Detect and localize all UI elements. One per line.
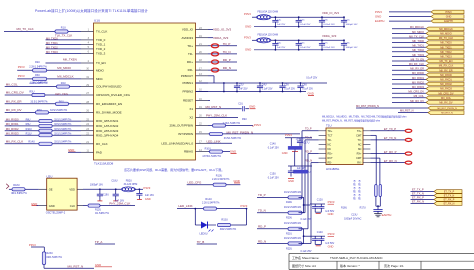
transformer T1U body — [326, 128, 363, 165]
resistor R10U 4.87K on RBIAS — [208, 151, 230, 153]
svg-text:0.1uF 25V: 0.1uF 25V — [284, 89, 295, 91]
net MII_RXD2 wire — [5, 130, 81, 132]
net MII_RXD1 wire — [5, 125, 81, 127]
svg-text:0.1uF 25V: 0.1uF 25V — [268, 176, 279, 179]
port MII_RXD1 — [426, 78, 464, 82]
svg-text:RD_N: RD_N — [305, 158, 312, 162]
svg-text:0.1uF 25V: 0.1uF 25V — [268, 146, 279, 149]
U1 pin PAD (pin 11) left stub — [81, 151, 94, 153]
svg-text:MII_TXEN: MII_TXEN — [63, 58, 77, 62]
svg-text:RX-: RX- — [357, 162, 361, 165]
svg-text:2.2K/1.54PF/7%: 2.2K/1.54PF/7% — [29, 66, 47, 69]
net MII_TXD2 wire — [46, 48, 82, 50]
U1 pin RD+ (pin 18) right stub — [196, 61, 209, 63]
svg-text:C14U: C14U — [317, 231, 323, 234]
svg-text:TX-: TX- — [357, 139, 361, 142]
svg-text:RBIAS: RBIAS — [184, 150, 193, 154]
svg-text:VDD_IO_3V3: VDD_IO_3V3 — [322, 11, 339, 15]
svg-text:MII_RXD0: MII_RXD0 — [6, 117, 19, 121]
resistor R9U 33.5 on MII_RXD1 — [39, 124, 52, 127]
svg-text:C7C: C7C — [324, 43, 329, 45]
port MII_TXD2 — [426, 50, 464, 54]
svg-text:33.5/1.54PF/7%: 33.5/1.54PF/7% — [54, 140, 72, 143]
wire to port EARTH — [389, 20, 431, 22]
capacitor C6C 0.1uF 25V — [298, 39, 300, 41]
T1U left pin RCT — [319, 157, 326, 159]
U1 pin TXD_3 (pin 6) left stub — [81, 52, 94, 54]
svg-text:MII_RX_CLK: MII_RX_CLK — [6, 139, 24, 143]
center tap wire lower — [370, 157, 380, 159]
svg-text:TD_N: TD_N — [223, 50, 231, 54]
svg-text:C12U: C12U — [317, 199, 323, 202]
svg-text:RXD_2/PHYAD3: RXD_2/PHYAD3 — [96, 129, 119, 133]
capacitor C4U 0.1uF 25V between PFB rails — [259, 82, 261, 84]
oscillator U2U body — [47, 178, 77, 210]
no-ERC marker on RD_P — [211, 60, 218, 64]
svg-text:P3V3: P3V3 — [375, 10, 382, 14]
wire MII_RST_N from X1 row — [208, 108, 242, 110]
net label VDD_IO_3V3 — [208, 29, 213, 31]
resistor R12U on CLK — [88, 204, 100, 207]
svg-text:EARTH: EARTH — [444, 20, 453, 23]
capacitor C7C 0.01uF 16V — [321, 39, 323, 41]
svg-text:1nF 25V: 1nF 25V — [239, 89, 248, 91]
U1 pin RD- (pin 17) right stub — [196, 69, 209, 71]
no-ERC marker on ET_TX_P — [405, 129, 412, 132]
T1U left pin NC — [319, 143, 326, 145]
svg-text:GND: GND — [95, 263, 101, 267]
svg-text:TD_P: TD_P — [258, 193, 266, 197]
wire RD_P termination — [257, 228, 288, 230]
port MII_TX_EN — [426, 59, 464, 63]
capacitor C6U 0.1uF 25V between PFB rails — [300, 82, 302, 84]
svg-text:MII_TX_CLK: MII_TX_CLK — [17, 27, 34, 31]
svg-text:49.9/1.54PF/1%: 49.9/1.54PF/1% — [284, 237, 302, 240]
svg-text:RX+: RX+ — [357, 153, 362, 156]
svg-text:X1: X1 — [189, 107, 193, 111]
svg-text:LED_LINK: LED_LINK — [178, 204, 192, 208]
wire TD_N vertical to T1U — [299, 212, 306, 214]
svg-text:TD-: TD- — [188, 52, 193, 56]
svg-text:MII_COL: MII_COL — [441, 97, 452, 100]
svg-text:MII_CRS_DV: MII_CRS_DV — [6, 91, 24, 95]
svg-text:EARTH: EARTH — [375, 19, 384, 23]
svg-text:RD-: RD- — [328, 162, 333, 165]
svg-text:LED_CFG: LED_CFG — [55, 92, 68, 96]
LED branch vertical left — [194, 209, 196, 225]
svg-text:MII_RX_CLK: MII_RX_CLK — [439, 65, 454, 68]
svg-text:R17U: R17U — [360, 206, 366, 209]
no-ERC marker on ET_RX_N — [405, 161, 412, 164]
svg-text:VDD_IO_3V3: VDD_IO_3V3 — [213, 28, 232, 32]
svg-text:MII_RX_ER: MII_RX_ER — [6, 99, 23, 103]
svg-text:页次 Page: 1/1: 页次 Page: 1/1 — [384, 263, 404, 268]
title block frame — [289, 253, 474, 255]
svg-text:P3V3: P3V3 — [445, 11, 452, 14]
svg-text:GND: GND — [249, 105, 255, 109]
net MII_RX_DV wire — [5, 111, 81, 113]
svg-text:0R/1.54PF/7%: 0R/1.54PF/7% — [46, 256, 62, 259]
wire to port MII_RXD0 — [392, 74, 426, 76]
U1 pin TX_CLK (pin 1) left stub — [81, 31, 94, 33]
wire to port MII_RXD1 — [392, 78, 426, 80]
svg-text:C17U: C17U — [303, 142, 309, 145]
wire to port MII_COL — [392, 97, 426, 99]
svg-text:NC: NC — [328, 148, 332, 151]
wire TD_P vertical to T1U — [299, 196, 303, 198]
svg-text:C8C: C8C — [346, 43, 351, 45]
T1U left pin RD- — [319, 162, 326, 164]
wire to port MII_TXD0 — [392, 42, 426, 44]
svg-text:TX_CLK: TX_CLK — [96, 30, 107, 34]
svg-text:RXD_3/PHYAD4: RXD_3/PHYAD4 — [96, 133, 119, 137]
filter blue box lower — [294, 170, 308, 173]
svg-text:MII_RXD3: MII_RXD3 — [440, 88, 452, 91]
svg-text:P3V3: P3V3 — [285, 133, 292, 137]
svg-text:EARTH: EARTH — [382, 213, 392, 217]
svg-text:1000pF 2KV/AC: 1000pF 2KV/AC — [344, 218, 362, 221]
svg-text:VDD_IO: VDD_IO — [182, 28, 194, 32]
svg-text:MII_RXD1: MII_RXD1 — [440, 79, 452, 82]
port MII_MDCLK — [426, 27, 464, 31]
svg-text:0/1.54PF/7%: 0/1.54PF/7% — [95, 212, 110, 215]
T1U left pin TD- — [319, 139, 326, 141]
svg-text:0.01uF 16V: 0.01uF 16V — [324, 24, 336, 26]
svg-text:MII_RXD2: MII_RXD2 — [440, 83, 452, 86]
wire LED_LINK row — [177, 208, 247, 210]
wire join RD pair — [303, 229, 305, 244]
svg-text:TXD_3: TXD_3 — [96, 52, 106, 56]
svg-text:TX_EN: TX_EN — [96, 61, 106, 65]
capacitor C5U 0.1uF 25V between PFB rails — [282, 82, 284, 84]
svg-text:GND: GND — [446, 16, 452, 19]
svg-text:GND: GND — [49, 204, 55, 208]
svg-text:1000pF 16V: 1000pF 16V — [90, 184, 103, 187]
svg-text:33.5/1.54PF/7%: 33.5/1.54PF/7% — [54, 123, 72, 126]
U1 pin TD- (pin 20) right stub — [196, 53, 209, 55]
net MII_RX_ER wire — [5, 103, 81, 105]
svg-text:CLK: CLK — [70, 204, 75, 208]
wire to port MII_RST_PWDN_N — [356, 107, 428, 109]
port MII_RX_CLK — [426, 64, 464, 68]
net PHY_25M_CLK at X2 — [208, 116, 238, 118]
net PHY_25M_CLK from CLK out — [83, 205, 88, 207]
svg-text:R19U: R19U — [286, 201, 292, 204]
svg-text:VDD: VDD — [69, 188, 75, 192]
bare stub RESET row — [208, 100, 210, 102]
wire ET_TX_N to port — [411, 195, 435, 197]
wire to port GND — [389, 16, 431, 18]
U1 pin 25M_OUT/PFBIN (pin 22) right stub — [196, 125, 209, 127]
svg-text:33.5/1.54PF/7%: 33.5/1.54PF/7% — [50, 109, 68, 112]
svg-text:RD+: RD+ — [187, 60, 193, 64]
net MII_MDIO wire — [17, 69, 81, 71]
svg-text:CRS/CRS_DV/LED_CFG: CRS/CRS_DV/LED_CFG — [96, 93, 131, 97]
wire ET_RX_N to port — [411, 203, 435, 205]
svg-text:49.9/1.54PF/1%: 49.9/1.54PF/1% — [284, 206, 302, 209]
svg-text:C4U: C4U — [262, 84, 267, 86]
svg-text:0.1uF 25V: 0.1uF 25V — [302, 89, 313, 91]
svg-text:MII_COL: MII_COL — [6, 82, 18, 86]
svg-text:P3V3: P3V3 — [328, 200, 335, 204]
net MII_RXD3 wire — [5, 134, 81, 136]
U1 pin INT/PWDN (pin 15) right stub — [196, 133, 209, 135]
svg-text:P3V3: P3V3 — [18, 65, 25, 69]
no-ERC marker on ET_RX_P — [405, 152, 412, 155]
resistor R19U 49.9 — [288, 196, 302, 199]
svg-text:C2C: C2C — [300, 20, 305, 22]
T1U right pin TX- — [363, 139, 370, 141]
capacitor C18U on osc VDD — [115, 188, 117, 190]
net MII_CRS_DV wire — [5, 94, 81, 96]
no-ERC marker on TD_P — [211, 44, 218, 48]
U1 pin PFBIN2 (pin 10) right stub — [196, 91, 209, 93]
svg-text:AVDD33: AVDD33 — [182, 36, 194, 40]
rail wire to VDD_IO_3V3 — [271, 16, 344, 18]
svg-text:1000pF 16V: 1000pF 16V — [346, 24, 358, 26]
svg-text:R1U: R1U — [61, 27, 66, 30]
U1 pin RESET (pin 16) right stub — [196, 100, 209, 102]
svg-text:ET_RX_N: ET_RX_N — [384, 159, 397, 163]
svg-text:1uF 16V: 1uF 16V — [145, 194, 154, 197]
wire ET_RX_P from T1U — [370, 153, 405, 155]
svg-text:PAD: PAD — [96, 150, 103, 154]
svg-text:MII_RST_N: MII_RST_N — [441, 113, 453, 115]
wire PAD to GND — [68, 151, 81, 153]
svg-text:GND: GND — [234, 179, 240, 183]
port P3V3 — [431, 10, 464, 14]
svg-text:2.2K/1.54PF/7%: 2.2K/1.54PF/7% — [202, 202, 220, 205]
T1U left pin NC — [319, 148, 326, 150]
svg-text:GND: GND — [328, 244, 334, 248]
svg-text:R21U: R21U — [286, 233, 292, 236]
svg-text:TSCP-SEB-A_PHY-TLK110L-MII-8AD: TSCP-SEB-A_PHY-TLK110L-MII-8ADC — [330, 256, 384, 260]
U1 pin TXD_0 (pin 3) left stub — [81, 39, 94, 41]
svg-text:MII_RXD0: MII_RXD0 — [440, 74, 452, 77]
svg-text:ET_TX_N: ET_TX_N — [384, 136, 396, 140]
net MII_RX_CLK wire — [5, 143, 81, 145]
svg-text:RD_P: RD_P — [223, 58, 231, 62]
svg-text:TLK110/LED8: TLK110/LED8 — [94, 162, 113, 166]
svg-text:C18U: C18U — [111, 180, 117, 183]
resistor R10U 33.5 on MII_RXD2 — [39, 129, 52, 132]
svg-text:P3V3: P3V3 — [328, 232, 335, 236]
svg-text:P3V3: P3V3 — [254, 123, 261, 127]
U1 pin RBIAS (pin 14) right stub — [196, 151, 209, 153]
svg-text:MII_MDCLK、MII_MDIO、MII_TXEN、MI: MII_MDCLK、MII_MDIO、MII_TXEN、MII_TXD0-MII… — [322, 114, 407, 118]
svg-text:2.2K/1.54PF/7%: 2.2K/1.54PF/7% — [29, 82, 47, 85]
svg-text:ET_TX_N: ET_TX_N — [412, 192, 424, 196]
capacitor C8C 1000pF 16V — [343, 39, 345, 41]
U1 pin MDC (pin 31) left stub — [81, 78, 94, 80]
net MII_TXD3 wire — [46, 52, 82, 54]
port MII_COL — [426, 96, 464, 100]
svg-text:0.1uF 25V: 0.1uF 25V — [306, 77, 317, 80]
capacitor C5C 1nF 25V — [275, 39, 277, 41]
capacitor C3C 0.01uF 16V — [321, 16, 323, 18]
svg-text:GND: GND — [282, 151, 288, 155]
svg-text:R23U: R23U — [46, 252, 53, 255]
svg-text:2.2K/1.54PF/7%: 2.2K/1.54PF/7% — [212, 178, 230, 181]
svg-text:R15U: R15U — [221, 219, 228, 222]
svg-text:R16U: R16U — [341, 206, 347, 209]
resistor R21U 49.9 — [288, 227, 302, 230]
U1 pin RXD_0/PHYAD1 (pin 25) left stub — [81, 120, 94, 122]
svg-text:0.1uF 25V: 0.1uF 25V — [301, 250, 312, 253]
svg-text:33.5/1.54PF/7%: 33.5/1.54PF/7% — [54, 118, 72, 121]
svg-text:0.1uF 25V: 0.1uF 25V — [300, 24, 311, 26]
svg-text:TD+: TD+ — [187, 44, 193, 48]
svg-text:TD+: TD+ — [328, 130, 333, 133]
svg-text:0.1uF 25V: 0.1uF 25V — [301, 218, 312, 221]
wire ET_RX_P to port — [411, 199, 435, 201]
svg-text:RCT: RCT — [328, 157, 334, 160]
svg-text:TCT: TCT — [328, 134, 333, 137]
wire VDD rail of oscillator — [83, 188, 122, 190]
svg-text:C4C: C4C — [346, 20, 351, 22]
svg-text:MII_RST_PWDN_N、MII_RST_N网络需要匹配: MII_RST_PWDN_N、MII_RST_N网络需要匹配电阻0 ohm — [322, 118, 380, 122]
svg-text:C15U: C15U — [270, 172, 276, 175]
svg-text:R9U: R9U — [242, 118, 247, 121]
svg-text:MII_RST_PWDN_N: MII_RST_PWDN_N — [356, 104, 379, 108]
svg-text:R18U: R18U — [13, 184, 20, 187]
svg-text:300/1.54PF/7%: 300/1.54PF/7% — [220, 228, 237, 231]
svg-text:OE: OE — [49, 188, 53, 192]
wire to port MII_RXD2 — [392, 83, 426, 85]
wire R to OE — [25, 188, 39, 190]
svg-text:GND: GND — [145, 197, 151, 201]
U1 pin TXD_2 (pin 5) left stub — [81, 48, 94, 50]
svg-text:MII_TX_EN: MII_TX_EN — [440, 60, 453, 63]
svg-text:MII_TXD3: MII_TXD3 — [46, 50, 58, 54]
svg-text:MII_MDCLK: MII_MDCLK — [57, 75, 73, 79]
EARTH symbol — [374, 213, 382, 215]
rail tie vertical — [223, 83, 225, 92]
wire to port MII_TX_CLK — [392, 37, 426, 39]
svg-text:GND: GND — [68, 148, 74, 152]
svg-text:P3V3: P3V3 — [244, 12, 251, 16]
wire to port MII_MDCLK — [392, 28, 426, 30]
svg-text:MII_TXD2: MII_TXD2 — [440, 51, 452, 54]
svg-text:R14U: R14U — [28, 140, 35, 143]
svg-text:C6U: C6U — [302, 84, 307, 86]
T1U left pin TCT — [319, 134, 326, 136]
IC U1 TLK110 body — [94, 23, 196, 160]
svg-text:C2U: C2U — [239, 84, 244, 86]
U1 pin RXD_1/PHYAD2 (pin 24) left stub — [81, 125, 94, 127]
svg-text:MII_RST_N: MII_RST_N — [68, 265, 84, 269]
T1U right pin TX+ — [363, 130, 370, 132]
svg-text:R22U: R22U — [286, 247, 292, 250]
U1 pin X2 (pin 20) right stub — [196, 116, 209, 118]
svg-text:MDC: MDC — [96, 77, 104, 81]
wire ET_RX_N from T1U — [370, 162, 405, 164]
rail wire to VDDA_3V3 — [271, 39, 344, 41]
wire ET_TX_N from T1U — [370, 139, 405, 141]
svg-text:GND: GND — [230, 150, 236, 154]
svg-text:MII_RX_DV: MII_RX_DV — [439, 102, 453, 105]
svg-text:C19U: C19U — [103, 195, 109, 197]
svg-text:PHY_25M_CLK: PHY_25M_CLK — [206, 113, 227, 117]
svg-text:GND: GND — [245, 48, 251, 52]
svg-text:TXD_1: TXD_1 — [96, 43, 106, 47]
svg-text:25M_OUT/PFBIN: 25M_OUT/PFBIN — [169, 124, 193, 128]
net MII_COL wire — [5, 86, 81, 88]
wires join center taps — [375, 197, 377, 207]
C14U group rail — [285, 137, 312, 139]
svg-text:NC: NC — [328, 143, 332, 146]
svg-text:MII_RXD3: MII_RXD3 — [6, 131, 19, 135]
U1 pin CRS/CRS_DV/LED_CFG (pin 27) left stub — [81, 94, 94, 96]
T1U right pin RX+ — [363, 153, 370, 155]
svg-text:0.01uF 16V: 0.01uF 16V — [324, 47, 336, 49]
port MII_RX_ER — [426, 68, 464, 72]
svg-text:P3V3: P3V3 — [241, 204, 248, 208]
svg-text:X2: X2 — [189, 116, 193, 120]
svg-text:MII_TX_CLK: MII_TX_CLK — [439, 37, 454, 40]
svg-text:MII_TXD2: MII_TXD2 — [46, 45, 58, 49]
svg-text:TD_P: TD_P — [223, 42, 231, 46]
wire PFBOUT down to rail — [208, 75, 214, 77]
svg-text:TD_N: TD_N — [258, 209, 266, 213]
U1 pin AVDD33 (pin 19) right stub — [196, 37, 209, 39]
svg-text:NC: NC — [358, 143, 362, 146]
U1 pin X1 (pin 19) right stub — [196, 108, 209, 110]
T1U left pin TD+ — [319, 130, 326, 132]
svg-text:MII_RST_PWDN_N: MII_RST_PWDN_N — [227, 130, 254, 134]
wire P3V3 to R23U — [31, 246, 44, 248]
wire to R18U input — [9, 188, 12, 190]
svg-text:MII_RX_ER: MII_RX_ER — [439, 69, 452, 72]
capacitor C20U after FB2U — [139, 188, 141, 190]
port EARTH — [431, 19, 464, 23]
wire to port MII_TXD3 — [392, 55, 426, 57]
resistor R17U vertical — [379, 185, 382, 197]
svg-text:RD_P: RD_P — [258, 225, 266, 229]
svg-text:TXD_0: TXD_0 — [96, 38, 106, 42]
svg-text:1nF 25V: 1nF 25V — [277, 24, 286, 26]
U1 pin COL/PHYAD0/LED (pin 29) left stub — [81, 86, 94, 88]
svg-text:TX+: TX+ — [357, 130, 362, 133]
svg-text:MII_TXD3: MII_TXD3 — [440, 56, 452, 59]
port MII_TXD3 — [426, 55, 464, 59]
wire TD_P from U1 — [208, 45, 237, 47]
svg-text:TP_A: TP_A — [95, 240, 103, 244]
wire TD_N from U1 — [208, 53, 237, 55]
svg-text:工作名 Sheet Name:: 工作名 Sheet Name: — [292, 255, 320, 260]
port MII_RST_PWDN_N — [428, 106, 464, 110]
resistor R16U vertical — [375, 185, 378, 197]
svg-text:P3V3: P3V3 — [144, 186, 151, 190]
svg-text:LED_LINK: LED_LINK — [207, 140, 221, 144]
svg-text:RX_CLK: RX_CLK — [96, 142, 108, 146]
svg-text:PFBOUT: PFBOUT — [181, 74, 193, 78]
resistor R20U 49.9 — [288, 211, 302, 214]
svg-text:R10U: R10U — [26, 128, 32, 131]
vertical join to lower group — [294, 152, 296, 167]
wire to port MII_CRS_DV — [392, 92, 426, 94]
port MII_TXD1 — [426, 45, 464, 49]
T1U right pin RX- — [363, 162, 370, 164]
resistor R8U 33.5 on MII_RXD0 — [39, 120, 52, 123]
svg-text:MII_MDIO: MII_MDIO — [440, 33, 451, 36]
svg-text:R9U: R9U — [26, 123, 31, 126]
U1 pin RXD_3/PHYAD4 (pin 22) left stub — [81, 134, 94, 136]
svg-text:ET_RX_P: ET_RX_P — [412, 196, 424, 200]
capacitor C2U 1nF 25V between PFB rails — [236, 82, 238, 84]
svg-text:P3V3: P3V3 — [244, 35, 251, 39]
resistor R11U 33.5 on MII_RXD3 — [39, 134, 52, 137]
